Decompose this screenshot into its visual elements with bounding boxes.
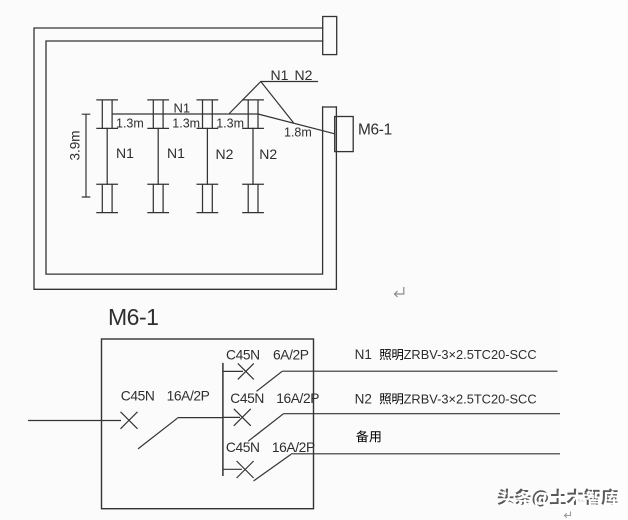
branch 1 stub (223, 370, 243, 372)
svg-text:N2: N2 (355, 391, 372, 406)
branch 2 stub (223, 416, 240, 418)
branch 1 breaker contact X (C45N 6A/2P) (238, 363, 254, 379)
svg-text:N2: N2 (259, 146, 277, 162)
svg-text:1.8m: 1.8m (284, 125, 312, 139)
svg-text:M6-1: M6-1 (358, 122, 392, 139)
svg-text:1.3m: 1.3m (216, 117, 244, 131)
svg-text:ZRBV-3×2.5TC20-SCC: ZRBV-3×2.5TC20-SCC (404, 347, 537, 362)
circuit N2 output wire (284, 413, 561, 415)
circuit N1 description: N1 照明ZRBV-3x2.5TC20-SCC (355, 347, 537, 362)
svg-text:C45N: C45N (121, 389, 155, 404)
svg-text:16A/2P: 16A/2P (272, 440, 315, 455)
svg-text:N2: N2 (216, 146, 234, 162)
bus riser (222, 363, 224, 476)
svg-text:N1: N1 (355, 347, 372, 362)
lamp fixture L2 (circuit N1) (148, 100, 169, 213)
panel enclosure box (102, 339, 314, 509)
lamp fixture L4 (circuit N2) (243, 100, 263, 213)
svg-text:1.3m: 1.3m (116, 117, 144, 131)
svg-text:ZRBV-3×2.5TC20-SCC: ZRBV-3×2.5TC20-SCC (404, 391, 537, 406)
incoming supply wire (28, 420, 121, 422)
svg-text:N1: N1 (174, 101, 191, 116)
svg-text:M6-1: M6-1 (108, 304, 158, 330)
wall inner line of room (46, 41, 323, 274)
svg-text:16A/2P: 16A/2P (167, 389, 210, 404)
branch 3 breaker contact X (C45N 16A/2P) (237, 461, 254, 478)
column block at top-right corner (323, 17, 337, 55)
leader lines to N1 N2 label (229, 82, 318, 123)
svg-text:C45N: C45N (226, 440, 260, 455)
main breaker blade (138, 418, 177, 449)
circuit N1 output wire (282, 370, 557, 372)
branch 1 blade (257, 371, 283, 391)
svg-text:C45N: C45N (230, 391, 264, 406)
wall outer line of room (34, 28, 336, 289)
paragraph return mark (middle) (395, 287, 404, 297)
svg-text:N1: N1 (116, 145, 134, 161)
svg-text:1.3m: 1.3m (172, 117, 200, 131)
lamp fixture L1 (circuit N1) (97, 100, 118, 213)
wire main to bus (177, 417, 223, 419)
spare output wire (291, 453, 560, 455)
paragraph return mark (bottom) (565, 512, 571, 518)
svg-text:N1: N1 (167, 145, 185, 161)
svg-text:6A/2P: 6A/2P (273, 348, 309, 363)
wire ceiling run between lamps (112, 113, 258, 115)
main breaker C45N 16A/2P contact X (121, 412, 138, 429)
svg-text:N1: N1 (271, 67, 289, 83)
svg-text:N2: N2 (295, 67, 313, 83)
branch 3 blade (254, 454, 292, 481)
branch 3 stub (223, 468, 242, 470)
svg-text:16A/2P: 16A/2P (276, 391, 319, 406)
svg-text:C45N: C45N (226, 348, 260, 363)
wall opening top cap (323, 106, 337, 108)
wire 1.8m run to panel (258, 114, 335, 134)
spare circuit label: 备用 (356, 430, 380, 442)
watermark 头条@土木智库 (embossed) (498, 488, 618, 506)
branch 2 breaker contact X (C45N 16A/2P) (234, 409, 251, 426)
branch 2 blade (248, 414, 283, 442)
dimension line 3.9m (82, 114, 91, 197)
svg-text:3.9m: 3.9m (68, 130, 83, 160)
distribution box M6-1 on wall (plan) (335, 117, 354, 152)
circuit N2 description: N2 照明ZRBV-3x2.5TC20-SCC (355, 391, 537, 406)
lamp fixture L3 (circuit N2) (197, 100, 218, 213)
